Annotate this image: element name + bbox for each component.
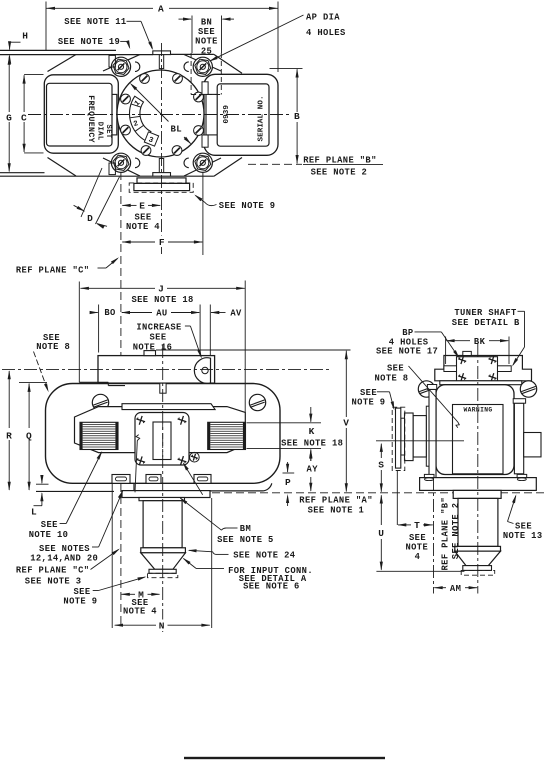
svg-text:SEE: SEE — [135, 213, 152, 223]
dimension M line — [121, 593, 135, 595]
foot pad right — [194, 475, 211, 484]
right port plate — [514, 403, 523, 474]
top plate upper edge line — [0, 49, 116, 51]
U bottom extension — [376, 570, 464, 572]
dial screws — [140, 74, 150, 84]
svg-text:SEE NOTE 19: SEE NOTE 19 — [58, 37, 120, 47]
side shoulder plate — [440, 381, 522, 385]
top view horizontal centerline — [28, 114, 290, 116]
leader BP — [415, 331, 442, 333]
svg-text:NOTE 4: NOTE 4 — [126, 222, 160, 232]
input connector barrel — [143, 501, 182, 548]
dimension N label — [157, 620, 168, 631]
top plate lower edge line — [0, 54, 153, 56]
leader see note 13 — [508, 522, 514, 524]
front body slotted screw left — [92, 394, 108, 410]
front view horizontal centerline — [2, 369, 330, 371]
dial number 3 box — [144, 132, 159, 147]
leader see notes 12 14 20 — [92, 546, 99, 548]
svg-text:A: A — [158, 4, 164, 15]
dimension U line — [380, 495, 382, 525]
waveguide flange neck top view — [137, 178, 186, 184]
AV extension line — [209, 305, 211, 356]
AU right extension — [199, 305, 201, 356]
waveguide plate P5 — [401, 418, 405, 455]
fin block left — [80, 422, 118, 449]
clamp top-left inner diagonal — [103, 55, 140, 72]
dimension AV arrow — [210, 311, 219, 314]
input connector flange — [122, 491, 210, 498]
increase knob — [194, 358, 210, 384]
svg-text:NOTE: NOTE — [195, 37, 218, 47]
dimension E line — [122, 204, 136, 206]
BO extension line — [98, 305, 100, 353]
tuner screws — [457, 355, 468, 366]
base plate front view — [134, 483, 272, 491]
fin block right — [208, 422, 246, 449]
clamp top-left outer diagonal — [48, 55, 77, 72]
side feet — [424, 474, 434, 477]
waveguide flange P6 — [396, 408, 401, 468]
clamp bottom-right diagonal — [214, 158, 242, 177]
boss phillips screw top-right — [176, 415, 188, 427]
svg-text:NOTE 9: NOTE 9 — [63, 596, 97, 606]
dimension AU line — [121, 311, 130, 314]
clamp bottom-right inner diagonal — [184, 158, 221, 176]
tuner shaft right wing — [498, 366, 512, 372]
dimension Q line — [28, 384, 30, 429]
dimension F line — [122, 241, 155, 243]
dimension H bracket — [9, 41, 21, 43]
ref plane A dashed line — [212, 492, 544, 494]
front body outline — [46, 384, 281, 484]
output connector barrel — [458, 498, 498, 546]
svg-text:Q: Q — [26, 430, 32, 441]
tuner shaft left wing — [444, 366, 457, 372]
dimension BK line — [446, 340, 470, 342]
svg-text:TUNER SHAFT: TUNER SHAFT — [454, 308, 517, 318]
dimension A left extension — [45, 2, 47, 52]
svg-text:NOTE 9: NOTE 9 — [352, 398, 386, 408]
svg-text:E: E — [139, 201, 145, 212]
svg-text:REF PLANE "C": REF PLANE "C" — [16, 266, 90, 276]
svg-text:NOTE 13: NOTE 13 — [503, 531, 543, 541]
clamp finger rect left bottom — [109, 163, 115, 175]
svg-text:BN: BN — [201, 17, 212, 27]
ref plane C vertical dashed line — [120, 172, 122, 628]
svg-text:SEE NOTE 1: SEE NOTE 1 — [308, 506, 365, 516]
dimension J line — [81, 287, 156, 289]
input connector tip — [149, 569, 176, 573]
leader see note 24 — [216, 553, 229, 555]
svg-text:SEE NOTE 6: SEE NOTE 6 — [243, 582, 300, 592]
BN left extension line — [191, 16, 193, 54]
output connector ring — [455, 546, 501, 551]
waveguide plate P1 — [429, 389, 436, 481]
dimension B line — [296, 69, 298, 112]
svg-text:4 HOLES: 4 HOLES — [306, 28, 346, 38]
input connector cone — [141, 553, 186, 570]
cover clamp screw front — [160, 383, 166, 393]
clamp bottom-left outer diagonal — [48, 158, 77, 177]
tuner housing center block — [457, 357, 498, 381]
svg-text:AV: AV — [230, 309, 242, 319]
dimension P — [283, 472, 295, 474]
BN right extension line — [221, 16, 223, 54]
dimension N line — [115, 624, 156, 626]
leader ref plane C top — [98, 267, 107, 269]
N right extension — [211, 498, 213, 628]
waveguide plate P2 — [426, 406, 429, 466]
side slotted screw left — [418, 381, 434, 397]
leader warning — [409, 366, 458, 422]
boss phillips screw bottom-left — [135, 455, 147, 467]
svg-text:SEE: SEE — [41, 520, 58, 530]
boss notch top-right — [184, 62, 189, 72]
body top-left step lines — [79, 381, 108, 383]
side body outline — [436, 385, 514, 475]
svg-text:H: H — [22, 31, 28, 42]
corner screw boss bottom-right — [193, 153, 212, 172]
clamp bottom edge short line — [0, 172, 45, 174]
svg-text:F: F — [159, 237, 165, 248]
Q top bracket — [19, 382, 47, 384]
svg-text:SEE: SEE — [387, 364, 404, 374]
F right extension line — [202, 173, 204, 255]
svg-text:SEE DETAIL B: SEE DETAIL B — [452, 318, 520, 328]
clamp bottom-left inner diagonal — [103, 158, 140, 176]
ref plane B dashed line — [248, 163, 302, 165]
svg-text:SET: SET — [104, 125, 112, 139]
leader see note 9 top view — [205, 203, 217, 206]
front view vertical centerline — [162, 345, 164, 632]
svg-text:SEE NOTE 18: SEE NOTE 18 — [281, 438, 343, 448]
T left extension — [396, 470, 398, 525]
dimension V line — [345, 351, 347, 417]
svg-text:AM: AM — [450, 584, 461, 594]
V top bracket — [156, 349, 351, 351]
base plate bottom line left — [36, 490, 114, 492]
clamp finger rect left — [109, 55, 115, 67]
svg-text:SERIAL NO.: SERIAL NO. — [258, 95, 266, 141]
boss notch top-left — [135, 62, 140, 72]
cover tab — [144, 351, 156, 356]
waveguide block P3 — [413, 416, 426, 457]
svg-text:L: L — [31, 506, 37, 517]
output connector flange — [453, 490, 501, 498]
svg-text:FREQUENCY: FREQUENCY — [86, 95, 95, 143]
dimension F label — [157, 236, 168, 248]
input connector step — [139, 498, 185, 501]
svg-text:SEE: SEE — [515, 521, 532, 531]
frequency dial set label plate — [47, 83, 113, 146]
corner screw boss top-right — [193, 57, 212, 76]
foot pad middle — [146, 475, 161, 484]
leader see note 11 — [127, 20, 142, 22]
dimension D extension lines — [81, 168, 102, 217]
J left extension — [78, 282, 80, 383]
leader increase — [185, 325, 191, 327]
boss notch bottom-left — [135, 158, 140, 168]
svg-text:NOTE: NOTE — [405, 543, 428, 553]
tuner housing block — [435, 356, 532, 381]
clamp top-right diagonal — [214, 54, 242, 73]
boss hidden square bottom — [191, 94, 221, 96]
output connector tip — [463, 566, 492, 571]
svg-text:V: V — [343, 417, 349, 428]
svg-text:D: D — [87, 213, 93, 224]
svg-text:DIAL: DIAL — [95, 122, 103, 141]
waveguide flange hidden outline — [129, 183, 193, 192]
right stub block — [524, 433, 541, 457]
svg-text:REF PLANE "A": REF PLANE "A" — [299, 496, 373, 506]
svg-text:SEE NOTE 3: SEE NOTE 3 — [25, 577, 82, 587]
svg-text:K: K — [309, 426, 315, 437]
warning label plate — [453, 405, 504, 474]
dimension G line — [8, 57, 10, 113]
svg-text:P: P — [285, 477, 291, 488]
top view vertical centerline — [161, 43, 163, 257]
leader zigzag to boss screw — [135, 441, 137, 493]
corner screw boss top-left — [111, 57, 130, 76]
dimension B top bracket — [270, 67, 303, 69]
svg-text:SEE NOTE 5: SEE NOTE 5 — [217, 535, 274, 545]
dimension R line — [8, 371, 10, 428]
leader see note 9 front — [93, 590, 99, 592]
side base plate — [420, 478, 537, 491]
foot pad left — [112, 475, 130, 484]
input connector hidden tip — [148, 573, 178, 577]
dimension D arrows — [74, 205, 85, 211]
leader tuner shaft — [518, 310, 525, 312]
boss phillips screw bottom-right — [176, 455, 188, 467]
front body slotted screw right — [249, 394, 265, 410]
dimension C brackets — [24, 73, 43, 75]
dial scale arc band — [129, 96, 150, 141]
serial no label plate — [217, 84, 269, 146]
dimension S line — [380, 444, 382, 458]
dimension V top right bracket — [350, 349, 352, 351]
svg-text:NOTE 16: NOTE 16 — [133, 343, 173, 353]
svg-text:T: T — [414, 520, 420, 531]
svg-text:REF PLANE "B": REF PLANE "B" — [303, 156, 377, 166]
svg-text:25: 25 — [201, 46, 212, 56]
dimension K brackets — [247, 422, 322, 424]
dimension BO arrows — [91, 312, 98, 314]
boss notch bottom-right — [184, 158, 189, 168]
side slotted screw right — [520, 381, 536, 397]
svg-text:B: B — [294, 111, 300, 122]
leader AP DIA — [211, 15, 304, 61]
svg-text:SEE NOTE 17: SEE NOTE 17 — [376, 346, 438, 356]
right clamp pad — [206, 94, 224, 134]
boss phillips screw top-left — [135, 415, 147, 427]
svg-text:G: G — [6, 112, 12, 123]
svg-text:BK: BK — [474, 337, 486, 347]
svg-text:SEE NOTE 11: SEE NOTE 11 — [64, 17, 126, 27]
svg-text:SEE NOTE 2: SEE NOTE 2 — [311, 168, 368, 178]
clamp top edge right of tab — [171, 53, 214, 55]
dimension T line — [398, 524, 411, 526]
leader see note 19 — [120, 40, 127, 42]
dimension A right extension — [277, 2, 279, 73]
tuner slot — [153, 422, 171, 460]
dimension A line — [46, 7, 153, 9]
dimension K arrows — [310, 407, 312, 422]
leader see note 8 front — [34, 352, 48, 390]
svg-text:SEE: SEE — [198, 27, 215, 37]
BK extensions — [445, 337, 447, 365]
dimension BN arrows — [179, 18, 192, 20]
circled phillips screw — [190, 452, 200, 462]
bottom rule — [184, 757, 385, 759]
svg-text:N: N — [159, 620, 165, 631]
leader to boss screw right — [184, 464, 203, 495]
increase knob center — [202, 367, 208, 373]
J right extension — [244, 281, 246, 413]
leader see note 10 — [60, 523, 67, 525]
svg-text:4: 4 — [415, 552, 421, 562]
svg-text:SEE: SEE — [150, 332, 167, 342]
dimension BL — [133, 86, 169, 122]
side view vertical centerline — [477, 344, 479, 594]
bottom tab — [153, 173, 171, 177]
leader ref plane C bottom — [91, 550, 119, 570]
svg-text:12,14,AND 20: 12,14,AND 20 — [30, 553, 98, 563]
central boss plate — [135, 413, 189, 466]
clamp top-right inner diagonal — [184, 55, 221, 72]
dimension AY — [310, 456, 312, 462]
top inner plate — [122, 404, 215, 410]
svg-text:AU: AU — [156, 309, 167, 319]
svg-text:BO: BO — [104, 308, 115, 318]
svg-text:BL: BL — [171, 125, 183, 135]
right ear housing — [204, 74, 278, 155]
left clamp pad — [98, 94, 116, 134]
leader BM — [226, 527, 238, 529]
clamp screw stub bottom — [159, 159, 163, 174]
output connector cone — [455, 551, 501, 565]
svg-text:SEE NOTES: SEE NOTES — [39, 544, 90, 554]
output connector hidden tip — [461, 570, 495, 575]
svg-text:R: R — [6, 430, 12, 441]
svg-text:INCREASE: INCREASE — [136, 322, 181, 332]
ref plane B vertical line side view — [433, 477, 435, 594]
svg-text:SEE NOTE 24: SEE NOTE 24 — [233, 551, 296, 561]
top cover plate front view — [98, 356, 215, 384]
svg-text:NOTE 8: NOTE 8 — [36, 342, 70, 352]
dimension AM line — [434, 587, 446, 589]
waveguide plate P4 — [405, 413, 414, 461]
inner boss hexagon outline — [75, 407, 246, 453]
leader for input conn — [196, 567, 224, 569]
svg-text:C: C — [21, 112, 27, 123]
svg-text:J: J — [158, 284, 164, 295]
svg-text:BM: BM — [240, 524, 251, 534]
gasket hidden outline — [392, 407, 405, 470]
svg-text:S: S — [378, 459, 384, 470]
N left extension — [111, 484, 113, 628]
svg-text:REF PLANE "C": REF PLANE "C" — [16, 566, 90, 576]
leader see note 9 side — [377, 391, 390, 393]
waveguide flange plate top view — [134, 183, 190, 190]
clamp finger rect right bottom — [202, 135, 208, 147]
svg-text:BP: BP — [402, 328, 413, 338]
svg-text:SEE NOTE 2: SEE NOTE 2 — [451, 503, 461, 560]
svg-text:NOTE 8: NOTE 8 — [375, 374, 409, 384]
svg-text:U: U — [378, 528, 384, 539]
clamp screw stub top — [159, 55, 163, 69]
svg-text:NOTE 4: NOTE 4 — [123, 607, 157, 617]
svg-text:NOTE 10: NOTE 10 — [29, 530, 69, 540]
svg-text:AY: AY — [307, 464, 319, 474]
svg-text:AP DIA: AP DIA — [306, 13, 340, 23]
svg-text:SEE: SEE — [409, 533, 426, 543]
corner screw boss bottom-left — [111, 153, 130, 172]
tuner housing top tab — [463, 351, 472, 355]
input connector ring — [141, 548, 186, 553]
port centerline — [376, 440, 464, 442]
top tab — [153, 51, 171, 55]
tuner dial circle — [117, 70, 204, 157]
svg-text:SEE NOTE 9: SEE NOTE 9 — [219, 201, 276, 211]
clamp bottom edge long line — [0, 175, 153, 177]
svg-text:SEE NOTE 18: SEE NOTE 18 — [131, 295, 193, 305]
dimension C line — [23, 75, 25, 112]
left ear housing — [44, 75, 118, 153]
svg-text:REF PLANE "B": REF PLANE "B" — [441, 497, 451, 571]
clamp finger rect right top — [202, 82, 208, 95]
